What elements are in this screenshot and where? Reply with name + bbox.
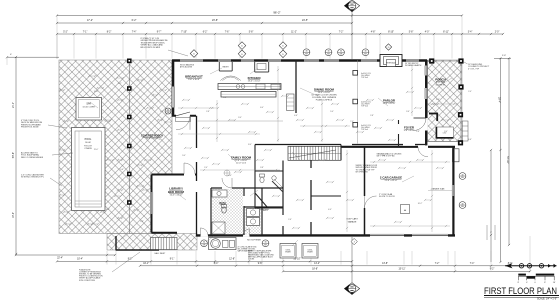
door swings <box>176 116 190 130</box>
svg-text:4'-0": 4'-0" <box>328 209 332 211</box>
svg-text:POOL: POOL <box>85 138 92 141</box>
svg-text:SLOPE FL: SLOPE FL <box>436 85 447 87</box>
powder east wall <box>282 161 284 236</box>
svg-text:+GARAGE SLAB: +GARAGE SLAB <box>431 188 446 191</box>
svg-text:11'-2": 11'-2" <box>291 31 297 33</box>
svg-text:14'-2": 14'-2" <box>314 263 320 265</box>
svg-text:12'-0" CLG: 12'-0" CLG <box>236 163 247 165</box>
family fan <box>224 170 230 176</box>
svg-text:10'-4": 10'-4" <box>77 259 83 261</box>
svg-text:6'-2": 6'-2" <box>132 19 137 22</box>
svg-text:H2O SOFTENER: H2O SOFTENER <box>247 239 262 241</box>
top dim line B <box>57 22 352 24</box>
deck rear step hatch <box>107 234 197 251</box>
dining columns <box>353 71 358 76</box>
foyer NE corner wall <box>429 113 438 115</box>
svg-text:5'-0": 5'-0" <box>330 111 334 113</box>
powder cluster <box>254 145 256 172</box>
svg-text:FIRST FLOOR PLAN: FIRST FLOOR PLAN <box>484 286 557 296</box>
breakfast stoop <box>176 117 191 121</box>
svg-text:GOLF CART: GOLF CART <box>346 218 358 221</box>
svg-text:8'-0": 8'-0" <box>248 144 252 146</box>
breakfast south wall <box>172 115 196 117</box>
top dim line C <box>57 33 503 35</box>
kitchen-family break line <box>198 120 284 122</box>
main stairs <box>288 146 341 160</box>
section marker top <box>344 0 359 12</box>
svg-text:TOP 4x4: TOP 4x4 <box>361 129 368 131</box>
svg-text:9'-1": 9'-1" <box>170 259 175 261</box>
svg-text:3'-4": 3'-4" <box>468 31 473 33</box>
library walls <box>152 175 197 233</box>
bath fixtures <box>212 190 227 197</box>
front entry landing <box>436 127 454 139</box>
svg-text:TOP 4x4: TOP 4x4 <box>361 106 368 108</box>
svg-text:30: 30 <box>327 51 329 53</box>
svg-text:4'-0": 4'-0" <box>160 111 164 113</box>
top extension lines <box>56 35 58 59</box>
front porch hatch <box>428 60 463 142</box>
parlor south wall <box>352 144 427 146</box>
svg-text:19'-0" x 10'-0": 19'-0" x 10'-0" <box>146 138 159 140</box>
small right-bottom dims <box>486 225 488 240</box>
svg-text:5'-8": 5'-8" <box>249 31 254 33</box>
svg-text:6'-2": 6'-2" <box>203 31 208 33</box>
golf cart garage walls <box>340 145 342 161</box>
svg-text:29'-4": 29'-4" <box>498 97 501 103</box>
svg-text:30: 30 <box>264 242 266 244</box>
hall east wall <box>310 160 312 235</box>
mini diamond tag <box>351 238 357 244</box>
svg-text:7'-4": 7'-4" <box>470 263 475 265</box>
svg-text:2'-6": 2'-6" <box>288 219 292 221</box>
svg-text:21'-0": 21'-0" <box>13 102 15 108</box>
svg-text:18'-4": 18'-4" <box>13 212 15 218</box>
svg-text:8'-4": 8'-4" <box>214 263 219 265</box>
svg-text:16'x30': 16'x30' <box>85 142 92 144</box>
svg-text:2'-8": 2'-8" <box>140 221 144 223</box>
washer dryer <box>247 209 260 217</box>
svg-text:4'-6": 4'-6" <box>294 115 298 117</box>
svg-text:2'-8": 2'-8" <box>206 111 210 113</box>
east wall bump below porch <box>453 149 460 162</box>
diamond tags <box>190 50 198 58</box>
svg-text:24'-5": 24'-5" <box>302 19 308 22</box>
spa <box>76 98 102 121</box>
svg-text:30: 30 <box>461 203 463 205</box>
pool deck hatch <box>59 60 197 250</box>
svg-text:8'-2": 8'-2" <box>107 31 112 33</box>
svg-text:HALL WEST: HALL WEST <box>155 252 166 255</box>
rear step sidewall <box>115 236 117 251</box>
china cabinet <box>287 94 295 110</box>
svg-text:BREAKFAST: BREAKFAST <box>185 75 203 79</box>
svg-text:3'-6": 3'-6" <box>406 111 410 113</box>
north wall <box>172 59 427 62</box>
pool <box>72 128 106 211</box>
svg-text:7'-2": 7'-2" <box>339 31 344 33</box>
svg-text:2'-8": 2'-8" <box>416 131 420 133</box>
svg-text:5'-2": 5'-2" <box>63 31 68 33</box>
bottom dim lines <box>16 254 115 256</box>
svg-text:4'-6": 4'-6" <box>468 139 472 141</box>
svg-text:12'-8": 12'-8" <box>229 259 235 261</box>
svg-text:6'-4": 6'-4" <box>260 107 264 109</box>
graphic scale bar <box>518 274 526 276</box>
svg-text:KITCHEN: KITCHEN <box>248 76 261 80</box>
linen diagonal <box>272 181 283 192</box>
right dim verticals <box>500 58 502 262</box>
svg-text:8'-11": 8'-11" <box>443 31 449 33</box>
svg-text:30: 30 <box>203 242 205 244</box>
garage north wall <box>341 146 455 148</box>
svg-text:10'x10' COVER: 10'x10' COVER <box>82 107 95 109</box>
svg-text:30: 30 <box>340 51 342 53</box>
section marker bottom <box>351 237 353 283</box>
svg-text:7'-6": 7'-6" <box>225 31 230 33</box>
deck edge ticks <box>64 120 68 122</box>
porch columns <box>127 59 132 64</box>
svg-text:9'-0": 9'-0" <box>182 155 186 157</box>
svg-text:30: 30 <box>461 174 463 176</box>
svg-text:COND-: COND- <box>308 250 313 252</box>
svg-text:13'-4" x 10'-0": 13'-4" x 10'-0" <box>248 81 261 83</box>
svg-text:15'-11": 15'-11" <box>399 269 406 271</box>
svg-text:30: 30 <box>167 109 169 111</box>
svg-text:1'-6": 1'-6" <box>223 97 227 99</box>
arched opening <box>220 76 240 81</box>
svg-text:COND-: COND- <box>286 250 291 252</box>
svg-text:6'-0": 6'-0" <box>228 175 232 177</box>
covered porch beam line <box>128 60 130 234</box>
svg-text:2'-4": 2'-4" <box>204 167 208 169</box>
svg-text:4'-0": 4'-0" <box>425 31 430 33</box>
svg-text:PLANS & SPECS: PLANS & SPECS <box>316 98 333 101</box>
svg-text:1'-0": 1'-0" <box>502 55 506 57</box>
porch east steps <box>462 121 468 141</box>
svg-text:FAMILY ROOM: FAMILY ROOM <box>231 156 252 160</box>
svg-text:17'-2": 17'-2" <box>87 19 93 22</box>
svg-text:TOP 4x4: TOP 4x4 <box>361 77 368 79</box>
svg-text:2'-8": 2'-8" <box>370 115 374 117</box>
svg-text:13'-10": 13'-10" <box>293 259 300 261</box>
svg-text:10'-2": 10'-2" <box>418 203 423 205</box>
kitchen island <box>221 92 276 98</box>
kitchen east wall <box>295 60 297 113</box>
svg-text:GARAGE: GARAGE <box>348 220 357 223</box>
left dim vertical <box>15 57 17 254</box>
north arrow / key <box>505 265 557 267</box>
svg-text:8'-10": 8'-10" <box>388 31 394 33</box>
svg-text:5'-8": 5'-8" <box>409 31 414 33</box>
garage west wall <box>364 147 366 235</box>
svg-text:13'-8": 13'-8" <box>382 263 388 265</box>
kitchen counter <box>218 84 281 90</box>
svg-text:9'-7": 9'-7" <box>157 31 162 33</box>
svg-text:22'-4": 22'-4" <box>57 258 63 260</box>
svg-text:2'-0": 2'-0" <box>468 91 472 93</box>
svg-text:FOYER: FOYER <box>404 126 415 130</box>
svg-text:5'-4": 5'-4" <box>382 155 386 157</box>
svg-text:21'-4" x 21'-0": 21'-4" x 21'-0" <box>385 180 398 182</box>
attic access <box>401 205 410 214</box>
library window (west) <box>150 192 153 214</box>
svg-text:9'-2": 9'-2" <box>490 269 495 271</box>
svg-text:3: 3 <box>354 242 355 244</box>
svg-text:PORCH: PORCH <box>435 78 445 82</box>
svg-text:9'-6" x 10'-0": 9'-6" x 10'-0" <box>188 79 200 81</box>
pantry <box>218 62 220 71</box>
svg-text:7'-1": 7'-1" <box>83 31 88 33</box>
south wall <box>196 234 455 236</box>
svg-text:3'-8": 3'-8" <box>260 167 264 169</box>
svg-text:96'-2": 96'-2" <box>273 11 280 15</box>
svg-text:23'-8": 23'-8" <box>212 19 218 22</box>
fireplace <box>380 55 402 67</box>
bottom extension lines <box>106 251 108 265</box>
svg-text:7'-4": 7'-4" <box>132 31 137 33</box>
svg-text:7'-10": 7'-10" <box>181 31 187 33</box>
hall north wall <box>255 144 341 146</box>
family west wall <box>196 116 198 176</box>
svg-text:30: 30 <box>364 51 366 53</box>
dining colonnade line <box>356 60 358 144</box>
svg-text:ENSER: ENSER <box>285 251 291 253</box>
svg-text:3'-4": 3'-4" <box>444 131 448 133</box>
front door swing <box>414 118 427 131</box>
bath tile floor <box>212 189 243 235</box>
svg-text:3'-2": 3'-2" <box>118 83 122 85</box>
svg-text:10'-0": 10'-0" <box>94 91 99 93</box>
svg-text:7'6x9'6: 7'6x9'6 <box>261 210 268 212</box>
svg-text:9'-8": 9'-8" <box>258 263 263 265</box>
porch posts <box>429 58 434 63</box>
svg-text:4'-8": 4'-8" <box>371 31 376 33</box>
leaders <box>210 68 222 74</box>
svg-text:3'-0": 3'-0" <box>238 117 242 119</box>
east wall (front) <box>425 60 427 147</box>
svg-text:44'-1": 44'-1" <box>143 263 149 265</box>
svg-text:15'-0": 15'-0" <box>94 149 99 151</box>
top dim line A <box>57 15 462 17</box>
svg-text:7'-0": 7'-0" <box>350 121 354 123</box>
svg-text:57'-10": 57'-10" <box>506 156 509 164</box>
svg-text:7'-2": 7'-2" <box>435 263 440 265</box>
interior dim strings <box>216 100 218 142</box>
svg-text:BED ROOM: BED ROOM <box>168 190 184 194</box>
interior mini dims <box>183 99 189 101</box>
garage east wall <box>452 147 454 236</box>
svg-text:OTHERS: OTHERS <box>84 148 92 150</box>
svg-text:PARLOR: PARLOR <box>383 99 396 103</box>
west wall <box>172 60 175 117</box>
summer kitchen <box>209 238 237 250</box>
window tags <box>303 49 310 56</box>
svg-text:5'-6": 5'-6" <box>120 169 124 171</box>
svg-text:30: 30 <box>305 51 307 53</box>
svg-text:2'-0": 2'-0" <box>495 31 500 33</box>
svg-text:0: 0 <box>534 282 535 284</box>
bath/utility block <box>211 187 283 189</box>
svg-text:4'-0": 4'-0" <box>106 209 110 211</box>
svg-text:DINING ROOM: DINING ROOM <box>314 88 335 92</box>
svg-text:2 CAR GARAGE: 2 CAR GARAGE <box>380 176 402 180</box>
svg-text:FIREPLACE: FIREPLACE <box>386 62 397 65</box>
svg-text:18'-8": 18'-8" <box>312 269 318 271</box>
rear stairs <box>151 238 178 250</box>
porch edge lines <box>428 60 462 62</box>
svg-text:SPA: SPA <box>86 103 91 106</box>
svg-text:59'-8": 59'-8" <box>12 152 15 158</box>
condensers <box>280 244 296 259</box>
svg-text:ENSER: ENSER <box>307 251 313 253</box>
svg-text:2'-6" CONC CANTILEVERW/ STRUCT: 2'-6" CONC CANTILEVERW/ STRUCT ENGR (TYP… <box>21 174 44 179</box>
foyer west wall <box>398 120 400 147</box>
svg-text:9'-4" x 8'-0": 9'-4" x 8'-0" <box>404 130 415 132</box>
svg-text:6'-0": 6'-0" <box>436 99 440 101</box>
